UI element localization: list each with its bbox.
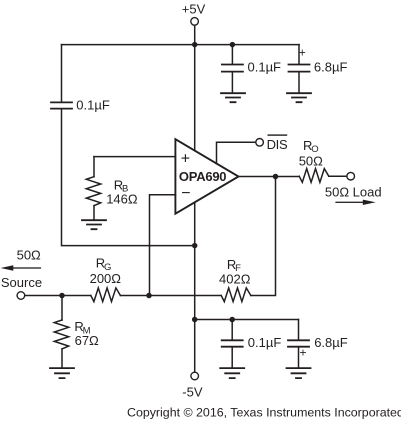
capacitor 6.8uF (+5V rail bulk) plates <box>289 65 310 72</box>
wire op-amp output <box>239 176 300 178</box>
ground below RM <box>50 368 74 378</box>
capacitor 0.1uF (-5V rail bypass) plates <box>222 340 243 346</box>
svg-text:+5V: +5V <box>182 2 206 17</box>
svg-text:6.8µF: 6.8µF <box>314 335 348 350</box>
svg-text:67Ω: 67Ω <box>75 333 99 348</box>
capacitor 0.1uF (-5V rail bypass) top lead <box>231 320 233 341</box>
resistor RG zigzag <box>91 288 121 302</box>
overline of DIS label <box>268 134 288 135</box>
wire RG to RF <box>120 295 221 297</box>
junction dot -5V line at lower rail <box>192 317 198 323</box>
wire -5V supply pin of op-amp <box>194 202 196 372</box>
wire +5V terminal to top rail <box>194 25 196 44</box>
node +5V terminal <box>191 18 199 26</box>
svg-text:+: + <box>181 151 190 168</box>
ground below -5V 0.1uF cap <box>220 368 244 378</box>
junction dot top rail at +5V pin <box>192 42 198 48</box>
svg-text:0.1µF: 0.1µF <box>248 60 282 75</box>
ground below +5V 6.8uF cap <box>287 93 311 102</box>
wire 6.8uF cap to ground <box>298 72 300 93</box>
capacitor 0.1uF (+5V rail bypass) top lead <box>231 45 233 65</box>
wire left bypass cap lower lead across to -5V line <box>62 109 195 246</box>
junction dot lower rail at C3 <box>229 317 235 323</box>
junction dot inverting node between RG and RF <box>146 293 152 299</box>
node DIS terminal <box>256 139 264 147</box>
svg-text:OPA690: OPA690 <box>179 169 226 184</box>
ground below +5V 0.1uF cap <box>221 93 245 102</box>
resistor RM top lead <box>61 296 63 321</box>
svg-text:Copyright © 2016, Texas Instru: Copyright © 2016, Texas Instruments Inco… <box>127 405 401 419</box>
node source input terminal <box>17 292 25 300</box>
op-amp U1 OPA690 triangle <box>175 139 238 214</box>
wire noninverting input <box>94 156 175 158</box>
wire RF to output node <box>251 177 276 296</box>
svg-text:6.8µF: 6.8µF <box>314 60 348 75</box>
wire -5V 0.1uF cap to ground <box>231 347 233 368</box>
svg-text:50Ω: 50Ω <box>299 153 323 168</box>
node -5V terminal <box>191 372 199 380</box>
wire source to RG <box>25 295 91 297</box>
wire lower supply rail <box>195 319 299 321</box>
arrow pointing right toward load <box>363 200 376 205</box>
resistor RB zigzag <box>86 177 100 206</box>
wire +5V supply pin of op-amp <box>194 45 196 151</box>
arrow pointing left toward source <box>1 265 14 270</box>
svg-text:50Ω Load: 50Ω Load <box>325 184 382 199</box>
svg-text:50Ω: 50Ω <box>17 248 41 263</box>
ground below RB <box>82 220 106 229</box>
resistor RM zigzag <box>54 320 68 349</box>
svg-text:200Ω: 200Ω <box>90 271 122 286</box>
wire RO to output terminal <box>329 175 347 177</box>
svg-text:+: + <box>299 46 306 60</box>
node output terminal <box>347 172 355 180</box>
wire 0.1uF cap to ground <box>231 72 233 93</box>
svg-text:+: + <box>299 345 306 359</box>
resistor RF zigzag <box>221 288 251 302</box>
junction dot source node at RM <box>59 293 65 299</box>
wire inverting input <box>150 195 176 296</box>
svg-text:402Ω: 402Ω <box>219 272 251 287</box>
svg-text:-5V: -5V <box>182 385 203 400</box>
svg-text:146Ω: 146Ω <box>106 191 138 206</box>
capacitor 6.8uF (-5V rail bulk) plates <box>288 340 309 346</box>
wire -5V 6.8uF cap to ground <box>298 347 300 368</box>
wire lower rail corner down to 6.8uF cap <box>298 320 300 341</box>
wire top supply rail <box>62 44 300 46</box>
ground below -5V 6.8uF cap <box>287 368 311 378</box>
svg-text:0.1µF: 0.1µF <box>76 98 110 113</box>
capacitor 0.1uF supply bypass plates <box>51 102 72 108</box>
wire left bypass cap upper lead <box>61 45 63 102</box>
svg-text:Source: Source <box>1 275 42 290</box>
svg-text:0.1µF: 0.1µF <box>248 335 282 350</box>
wire RM to ground <box>61 349 63 368</box>
wire RB to ground <box>93 206 95 220</box>
junction dot top rail at C1 <box>230 42 236 48</box>
resistor RO zigzag <box>299 169 329 183</box>
wire top rail corner down to 6.8uF cap <box>298 45 300 65</box>
svg-text:DIS: DIS <box>267 137 288 152</box>
resistor RB top lead <box>93 157 95 177</box>
capacitor 0.1uF (+5V rail bypass) plates <box>222 65 243 72</box>
junction dot output node at RF <box>273 174 279 180</box>
wire DIS pin <box>217 142 256 163</box>
svg-text:−: − <box>181 185 190 202</box>
junction dot -5V line at bypass wire <box>192 243 198 249</box>
